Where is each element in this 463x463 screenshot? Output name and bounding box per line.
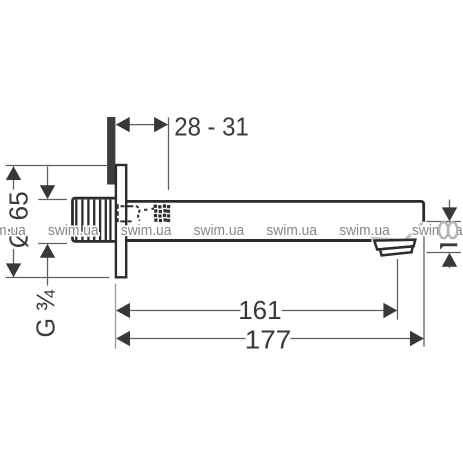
svg-text:swim.ua: swim.ua [121,222,172,239]
svg-text:161: 161 [238,295,281,325]
svg-text:Ø 65: Ø 65 [3,191,33,248]
svg-text:28 - 31: 28 - 31 [174,112,249,142]
svg-text:G ¾: G ¾ [30,290,60,338]
svg-text:swim.ua: swim.ua [0,222,26,239]
svg-text:177: 177 [245,324,291,354]
svg-text:swim.ua: swim.ua [194,222,245,239]
svg-text:swim.ua: swim.ua [266,222,317,239]
svg-text:swim.ua: swim.ua [48,222,99,239]
svg-text:swim.ua: swim.ua [339,222,390,239]
